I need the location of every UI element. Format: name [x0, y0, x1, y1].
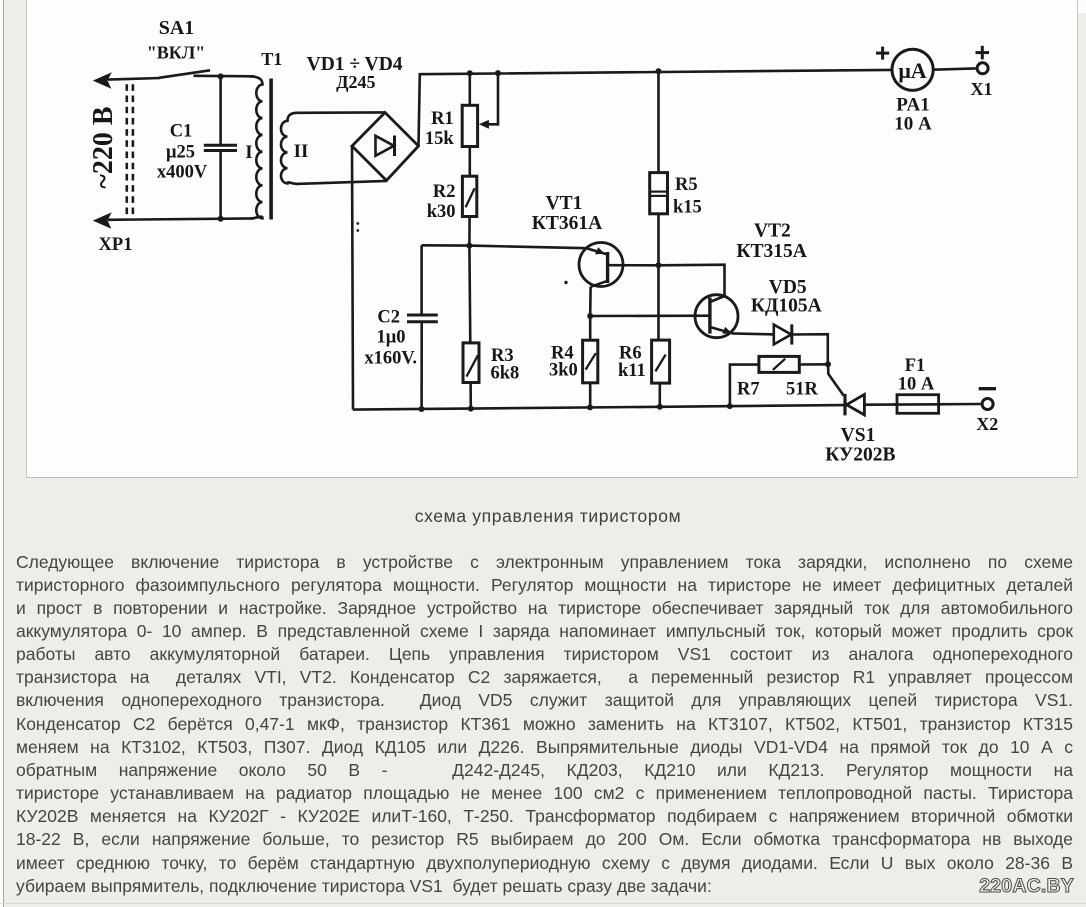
svg-text:VS1: VS1	[841, 425, 876, 446]
svg-text:VT1: VT1	[546, 193, 583, 214]
svg-text:I: I	[245, 142, 252, 163]
svg-text:6k8: 6k8	[491, 364, 520, 384]
svg-text:k30: k30	[427, 202, 456, 222]
svg-text:КТ315А: КТ315А	[736, 241, 806, 262]
svg-text:R2: R2	[433, 182, 456, 202]
svg-text:КД105А: КД105А	[751, 296, 822, 317]
svg-text:x400V: x400V	[157, 163, 208, 183]
svg-text:II: II	[294, 141, 309, 162]
svg-text:10 А: 10 А	[894, 114, 932, 135]
svg-text:k11: k11	[618, 361, 646, 381]
svg-text:~220 В: ~220 В	[88, 106, 119, 188]
svg-text:"ВКЛ": "ВКЛ"	[147, 43, 205, 63]
svg-text:T1: T1	[261, 49, 282, 69]
svg-text:PA1: PA1	[896, 95, 929, 116]
svg-text:R1: R1	[431, 109, 454, 129]
svg-text:k15: k15	[673, 198, 702, 218]
svg-text:КТ361А: КТ361А	[532, 213, 602, 234]
svg-text:X2: X2	[976, 414, 998, 434]
svg-text:10 А: 10 А	[898, 375, 935, 395]
svg-text:F1: F1	[905, 356, 926, 376]
svg-text:C1: C1	[170, 122, 193, 142]
svg-text:R7: R7	[737, 379, 760, 399]
svg-text:C2: C2	[377, 308, 400, 328]
svg-text:x160V.: x160V.	[364, 349, 417, 369]
svg-text:μ25: μ25	[166, 143, 195, 163]
svg-text:SA1: SA1	[159, 17, 195, 39]
svg-text:ХР1: ХР1	[99, 235, 133, 255]
svg-text:51R: 51R	[786, 379, 819, 399]
svg-text:КУ202В: КУ202В	[825, 445, 895, 466]
svg-text:R5: R5	[675, 175, 698, 195]
svg-text:X1: X1	[971, 79, 993, 99]
svg-text:3k0: 3k0	[549, 361, 578, 381]
svg-text:15k: 15k	[425, 129, 455, 149]
svg-text:VT2: VT2	[754, 220, 791, 241]
svg-text:μА: μА	[898, 58, 926, 83]
svg-text:1μ0: 1μ0	[377, 328, 406, 348]
svg-text:Д245: Д245	[336, 72, 375, 92]
